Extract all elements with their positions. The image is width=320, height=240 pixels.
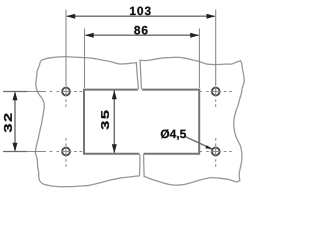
extension x=84.5 (86 dim left) [84,29,86,89]
extension x=199.4 (86 dim right) [198,29,200,89]
hole circle top-left [62,88,70,96]
crosshair hole bottom-left [50,138,83,167]
crosshair hole top-right [199,83,232,107]
cutout rectangle [84,90,199,154]
hole circle top-right [212,88,220,96]
dimension 35 label (rotated) [101,110,109,129]
dimension 86 label [134,26,147,34]
dimension 103 label [130,7,151,16]
hole diameter label [161,129,186,139]
leader line for hole diameter [185,137,213,150]
centerline x=66 (103 dim left extension) [65,10,67,85]
hole crosshairs [50,83,232,167]
hole circle bottom-right [212,148,220,156]
crosshair hole bottom-right [199,138,232,167]
crosshair hole top-left [50,83,83,107]
centerline y=91.5 (32 dim top extension) [3,91,27,93]
dimension 35 line [112,90,117,153]
dimension 32 line [13,91,18,151]
panel break outline left piece [35,57,140,187]
panel break outline right piece [140,57,244,185]
dimension 32 label (rotated) [4,113,12,132]
centerline y=151.5 (32 dim bottom extension) [3,151,27,153]
centerline x=215.7 (103 dim right extension) [215,10,217,85]
hole circle bottom-left [62,148,70,156]
dimension 86 line [85,33,200,38]
dimension 103 line [66,14,215,19]
